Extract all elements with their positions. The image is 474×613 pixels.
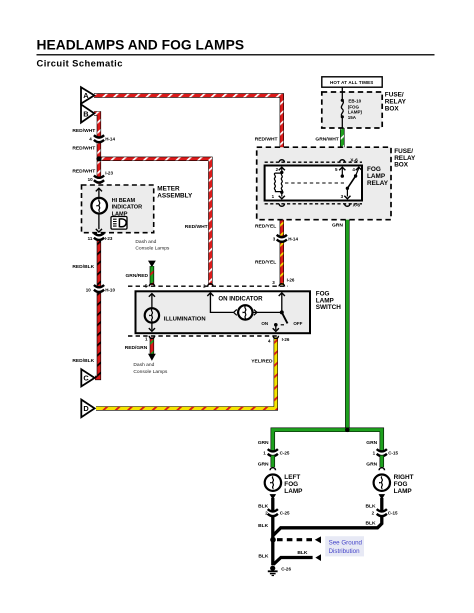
ground C-26 (268, 566, 292, 576)
svg-text:ON INDICATOR: ON INDICATOR (218, 295, 263, 302)
connector H-14 pin 3 inline (273, 235, 299, 242)
svg-text:2: 2 (372, 510, 375, 515)
svg-text:10: 10 (86, 288, 92, 293)
svg-text:YEL/RED: YEL/RED (251, 358, 273, 364)
svg-text:LAMP: LAMP (394, 488, 413, 495)
svg-text:RED/YEL: RED/YEL (255, 223, 276, 229)
svg-text:RED/BLK: RED/BLK (72, 264, 94, 270)
connector C (81, 369, 94, 386)
wire BLK branch to ground distribution (258, 550, 321, 565)
svg-text:See Ground: See Ground (329, 540, 363, 547)
svg-text:1: 1 (373, 450, 376, 455)
fuse/relay box (fuse EB-10) (322, 92, 407, 128)
svg-text:RED/GRN: RED/GRN (125, 345, 148, 351)
svg-text:ILLUMINATION: ILLUMINATION (164, 316, 206, 322)
svg-text:Dash and: Dash and (133, 362, 154, 368)
wire BLK right fog lamp to junction (273, 494, 385, 535)
label Dash and Console Lamps lower (133, 362, 168, 375)
connector B (81, 104, 94, 122)
node BLK junction (270, 537, 276, 543)
svg-text:I-26: I-26 (282, 337, 290, 342)
svg-text:C-15: C-15 (388, 510, 398, 515)
svg-text:3: 3 (272, 280, 275, 285)
fuse/relay box (fog lamp relay) (257, 147, 416, 220)
svg-text:B: B (83, 109, 88, 118)
lamp left fog lamp (265, 474, 303, 495)
hi beam icon (111, 217, 127, 230)
svg-text:H-14: H-14 (105, 136, 115, 141)
fog lamp switch connector dashed line top (128, 284, 288, 289)
connector A (81, 87, 94, 103)
wire YEL/RED switch pin 4 to connector D (96, 337, 276, 408)
svg-text:11: 11 (88, 236, 93, 241)
svg-text:X-6: X-6 (350, 158, 358, 164)
svg-text:X-6: X-6 (353, 203, 361, 209)
svg-text:RED/WHT: RED/WHT (72, 145, 95, 151)
svg-text:C-25: C-25 (280, 450, 290, 455)
svg-text:BOX: BOX (394, 162, 409, 169)
svg-text:15A: 15A (348, 115, 357, 120)
connector H-10 pin 10 inline (86, 285, 116, 293)
svg-text:BLK: BLK (366, 504, 377, 510)
svg-text:BLK: BLK (258, 504, 269, 510)
svg-text:EB-10: EB-10 (348, 99, 361, 104)
svg-text:ON: ON (261, 321, 268, 326)
svg-text:4: 4 (268, 338, 271, 343)
svg-text:METER: METER (157, 185, 180, 192)
switch pin 5 arrow (149, 294, 155, 308)
svg-text:GRN: GRN (366, 462, 377, 468)
connector X-6 top dashed line (265, 158, 362, 164)
svg-text:1: 1 (145, 337, 148, 342)
lamp hi beam indicator (91, 198, 142, 217)
fuse EB-10 (FOG LAMP) 15A (341, 99, 363, 128)
meter pin 11 arrow (96, 214, 102, 232)
svg-text:RED/WHT: RED/WHT (72, 128, 95, 134)
wire GRN relay pin 3 to fog lamp junction (345, 205, 350, 430)
wire BLK dashed to ground distribution (277, 536, 321, 543)
svg-text:H-10: H-10 (105, 288, 115, 293)
wire GRN into left fog lamp (270, 456, 275, 471)
switch pin 2 wire and on indicator lamp (207, 293, 282, 320)
connector D (81, 400, 94, 418)
svg-text:LAMP: LAMP (284, 488, 303, 495)
switch pin 1 arrow (149, 323, 155, 331)
svg-text:(FOG: (FOG (348, 104, 360, 109)
wire feed from hot box (341, 87, 343, 99)
svg-text:RED/WHT: RED/WHT (185, 224, 208, 230)
wire RED/WHT junction branch to fog lamp switch pin 2 (99, 159, 210, 285)
wire GRN/WHT fuse to relay pin 5 (340, 128, 345, 161)
connector H-14 pin 4 inline (89, 135, 115, 142)
svg-text:Circuit Schematic: Circuit Schematic (37, 58, 123, 69)
svg-text:BLK: BLK (258, 523, 269, 529)
connector C-15 pin 1 (366, 440, 398, 468)
svg-text:GRN: GRN (332, 223, 343, 229)
wire RED/WHT from connector B to junction (94, 113, 99, 158)
svg-text:BLK: BLK (297, 550, 308, 556)
svg-text:Console Lamps: Console Lamps (133, 369, 168, 375)
connector I-23 pin 11 (88, 233, 113, 241)
svg-text:BLK: BLK (258, 553, 269, 559)
svg-text:D: D (83, 404, 89, 413)
wire GRN into right fog lamp (379, 456, 384, 471)
connector I-26 pin 3 at switch (272, 277, 295, 285)
switch pin 3 wire (279, 293, 285, 315)
connector C-25 pin 1 (258, 440, 290, 468)
svg-text:GRN: GRN (258, 462, 269, 468)
svg-text:RED/WHT: RED/WHT (255, 136, 278, 142)
connector X-6 bottom dashed line (265, 203, 362, 209)
svg-text:1: 1 (263, 450, 266, 455)
svg-text:Console Lamps: Console Lamps (135, 246, 170, 252)
fog lamp switch connector dashed line bottom (128, 336, 290, 344)
svg-text:GRN/WHT: GRN/WHT (315, 136, 338, 142)
svg-text:INDICATOR: INDICATOR (112, 205, 143, 211)
svg-text:C-26: C-26 (281, 566, 291, 571)
relay mechanical dashed link (285, 182, 344, 184)
title HEADLAMPS AND FOG LAMPS (37, 38, 435, 56)
svg-text:Distribution: Distribution (329, 548, 361, 555)
wire BLK left fog lamp to ground (270, 494, 277, 565)
svg-text:GRN/RED: GRN/RED (126, 273, 149, 279)
svg-text:Dash and: Dash and (135, 239, 156, 245)
svg-text:LAMP): LAMP) (348, 110, 363, 115)
svg-text:I-23: I-23 (105, 171, 113, 176)
svg-text:RELAY: RELAY (367, 180, 389, 187)
wire RED/WHT junction down to meter assembly (97, 159, 101, 184)
svg-text:SWITCH: SWITCH (316, 304, 342, 311)
svg-text:RED/WHT: RED/WHT (72, 169, 95, 175)
see ground distribution note (325, 536, 364, 556)
svg-text:ASSEMBLY: ASSEMBLY (157, 192, 193, 199)
wire RED/GRN switch pin 1 to dash and console lamps (148, 337, 156, 360)
svg-text:C-25: C-25 (280, 510, 290, 515)
svg-text:GRN: GRN (258, 440, 269, 446)
wire RED/YEL relay pin 1 to fog lamp switch pin 3 (280, 205, 284, 285)
meter assembly box (82, 185, 193, 233)
svg-text:C-15: C-15 (388, 450, 398, 455)
svg-text:RED/YEL: RED/YEL (255, 260, 276, 266)
switch blade ON/OFF (261, 312, 302, 331)
svg-text:A: A (83, 91, 89, 100)
wire RED/BLK meter assembly pin 11 to connector C (95, 240, 99, 378)
op relay box fog lamp relay (265, 166, 389, 201)
svg-text:4: 4 (89, 136, 92, 141)
lamp right fog lamp (374, 474, 414, 495)
svg-text:HOT AT ALL TIMES: HOT AT ALL TIMES (330, 80, 373, 85)
hot at all times box (322, 77, 382, 87)
svg-text:HI BEAM: HI BEAM (112, 198, 136, 204)
svg-text:BLK: BLK (366, 521, 377, 527)
fog lamp switch box (136, 290, 342, 333)
svg-text:I-23: I-23 (105, 236, 113, 241)
svg-text:OFF: OFF (293, 321, 302, 326)
svg-text:I-26: I-26 (287, 277, 295, 282)
meter pin 10 arrow (96, 188, 102, 198)
svg-text:10: 10 (88, 177, 94, 182)
relay switch pins 5-4-3 (335, 167, 362, 199)
wire GRN distribution to both fog lamps (273, 430, 382, 452)
svg-text:GRN: GRN (366, 440, 377, 446)
relay coil pins 2-1 (272, 167, 285, 199)
connector C-15 pin 2 (366, 504, 399, 527)
svg-text:HEADLAMPS AND FOG LAMPS: HEADLAMPS AND FOG LAMPS (37, 38, 245, 53)
connector I-23 pin 10 at meter assembly (88, 171, 114, 183)
wire RED/WHT from connector A to fog lamp relay pin 2 (94, 96, 282, 161)
lamp illumination (145, 308, 206, 322)
svg-text:3: 3 (273, 236, 276, 241)
node junction of RED/WHT wires (96, 156, 101, 161)
svg-text:RED/BLK: RED/BLK (72, 358, 94, 364)
connector C-25 pin 2 (258, 504, 290, 530)
svg-text:BOX: BOX (385, 105, 400, 112)
label Dash and Console Lamps upper (135, 239, 170, 252)
svg-text:C: C (83, 374, 89, 383)
svg-text:H-14: H-14 (288, 236, 298, 241)
node GRN junction (345, 428, 350, 433)
wire GRN/RED dash and console lamps feed to switch pin 5 (148, 261, 156, 285)
